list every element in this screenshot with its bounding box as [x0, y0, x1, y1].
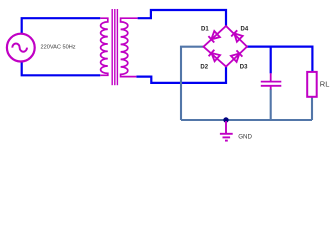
svg-text:D4: D4 [241, 26, 249, 32]
wire: transformer secondary top to bridge top corner [138, 10, 226, 26]
wire: capacitor bottom to rail [270, 89, 272, 120]
node: ground junction dot [223, 117, 228, 122]
transformer T1 secondary winding [121, 18, 138, 76]
wire: bridge right corner to load resistor top [247, 47, 312, 73]
svg-text:RL: RL [320, 79, 330, 88]
wire: AC source bottom to transformer primary bottom [22, 61, 101, 75]
wire: bottom ground rail [181, 119, 312, 121]
wire: bridge left corner to ground rail (slate) [181, 47, 204, 120]
wire: capacitor top branch [270, 47, 272, 74]
diode D4 [231, 30, 243, 42]
bridge diamond wires [204, 26, 248, 67]
diode D2 [209, 50, 221, 62]
svg-text:220VAC 50Hz: 220VAC 50Hz [41, 45, 76, 51]
wire: AC source top to transformer primary top [22, 18, 101, 34]
wire: resistor bottom to rail [311, 97, 313, 120]
wire: transformer secondary bottom to bridge bottom corner [136, 67, 226, 83]
transformer T1 primary winding [100, 18, 108, 75]
svg-text:GND: GND [238, 133, 252, 140]
svg-text:D1: D1 [201, 26, 209, 32]
AC source V1 [7, 34, 35, 62]
ground [220, 121, 233, 141]
diode D3 [231, 50, 243, 62]
svg-text:D2: D2 [200, 65, 208, 71]
diode D1 [208, 31, 220, 43]
transformer core [111, 9, 113, 85]
capacitor C1 [270, 73, 272, 81]
svg-text:D3: D3 [240, 65, 248, 71]
resistor RL [307, 72, 317, 97]
